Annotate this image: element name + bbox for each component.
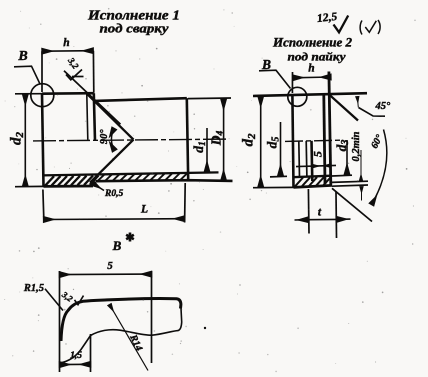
- 60deg arc: [372, 130, 387, 205]
- hatch right band body: [98, 173, 187, 180]
- label 3,2: [66, 55, 82, 71]
- extension middle for 1,5: [90, 334, 92, 372]
- dimension 1,5: [60, 363, 91, 365]
- view label B right: [261, 57, 271, 72]
- svg-text:R14: R14: [127, 332, 144, 353]
- 45deg leader: [359, 108, 386, 117]
- svg-text:5: 5: [107, 260, 113, 272]
- label R14 with arrow: [110, 305, 149, 371]
- svg-text:под пайку: под пайку: [288, 50, 347, 64]
- svg-text:3,2: 3,2: [66, 55, 82, 71]
- dimension d2 right: [253, 186, 294, 188]
- label 3,2 small with tick: [59, 289, 75, 304]
- svg-text:d1: d1: [191, 141, 208, 153]
- wavy break line: [61, 308, 182, 363]
- dimension h right: [291, 72, 293, 93]
- svg-text:В: В: [17, 49, 27, 64]
- socket bore wall v5: [324, 95, 325, 184]
- left edge of part: [42, 94, 44, 187]
- svg-text:0,2min: 0,2min: [351, 131, 362, 161]
- bore ext for d3: [332, 174, 352, 177]
- dimension d3: [346, 140, 348, 175]
- view label B left: [17, 49, 27, 64]
- label R1,5 with leader: [23, 283, 44, 294]
- svg-text:R1,5: R1,5: [23, 283, 44, 294]
- collar face vertical: [94, 93, 95, 141]
- svg-text:d5: d5: [265, 137, 282, 149]
- 90deg angle arc: [111, 128, 114, 150]
- svg-text:45°: 45°: [375, 101, 392, 112]
- roughness (check) symbol: [360, 20, 380, 35]
- collar bottom edge: [44, 185, 94, 188]
- 90deg label: [99, 129, 110, 145]
- extension right for 5: [151, 271, 153, 363]
- cone upper arm 90deg: [88, 94, 134, 139]
- dimension d1: [206, 128, 208, 172]
- detail circle B left: [31, 84, 54, 107]
- svg-text:✱: ✱: [125, 232, 134, 244]
- label R0,5 with leader: [92, 183, 105, 191]
- svg-text:Исполнение 2: Исполнение 2: [272, 36, 352, 50]
- R0,5 fillet step: [90, 183, 96, 186]
- svg-text:d2: d2: [9, 132, 27, 146]
- roughness check symbol: [334, 16, 349, 33]
- title text Исполнение 2: [272, 36, 352, 64]
- socket bottom vertical v4: [310, 141, 313, 181]
- cone lower arm 90deg: [90, 140, 134, 183]
- svg-text:h: h: [63, 37, 69, 49]
- bore line (band top) with d1 extension: [43, 172, 219, 175]
- roughness tick on leader: [66, 70, 82, 80]
- dimension L: [43, 190, 44, 223]
- inner bore vertical v2: [298, 141, 301, 177]
- chamfer diagonal 45: [330, 95, 358, 120]
- collar top edge: [42, 92, 94, 95]
- right edge of part: [187, 98, 188, 180]
- svg-text:R0,5: R0,5: [104, 189, 123, 199]
- left edge end face: [292, 95, 293, 187]
- svg-text:L: L: [140, 204, 148, 216]
- dimension 0,2min: [360, 150, 362, 181]
- dimension 5: [60, 273, 152, 276]
- svg-text:5: 5: [311, 151, 325, 157]
- svg-text:12,5: 12,5: [316, 11, 338, 25]
- svg-text:d3: d3: [334, 140, 351, 152]
- hatch left band collar: [45, 176, 99, 186]
- dimension D4: [188, 97, 231, 100]
- svg-text:В: В: [112, 238, 122, 253]
- 60deg leader diagonal: [332, 188, 372, 221]
- extension 0,2min upper: [332, 181, 369, 182]
- body bottom edge with D4 extension: [96, 180, 233, 181]
- title text Исполнение 1: [87, 9, 180, 36]
- detail title B*: [112, 232, 135, 253]
- svg-text:d2: d2: [241, 133, 259, 147]
- dimension d5: [270, 175, 287, 178]
- thin vertical countersink edge: [87, 94, 88, 140]
- svg-text:90°: 90°: [99, 129, 110, 145]
- dimension t: [307, 189, 310, 234]
- bottom edge right figure: [294, 185, 333, 187]
- right end face v6: [329, 72, 331, 186]
- svg-text:60°: 60°: [369, 133, 385, 151]
- centerline right figure: [285, 140, 340, 141]
- roughness 12,5: [316, 11, 338, 25]
- roughness leader diagonal 3,2: [64, 71, 121, 125]
- hatch right figure band: [295, 177, 331, 187]
- svg-text:под сварку: под сварку: [100, 22, 170, 36]
- svg-text:3,2: 3,2: [59, 289, 75, 304]
- wire centerline left figure: [33, 139, 229, 141]
- detail circle B right: [288, 87, 307, 106]
- dimension h left: [41, 51, 43, 92]
- stray dot: [204, 327, 206, 329]
- socket depth small dimension with rotated 5: [296, 165, 336, 166]
- extension left: [59, 271, 61, 372]
- svg-text:t: t: [318, 207, 322, 219]
- body top edge: [95, 98, 187, 101]
- top edge with extensions: [253, 93, 367, 96]
- extension 0,2min lower: [332, 185, 368, 186]
- svg-text:D4: D4: [209, 131, 226, 147]
- dimension d2 left: [15, 93, 42, 95]
- svg-text:h: h: [308, 63, 314, 75]
- inner bore vertical v3: [305, 141, 308, 177]
- band top right figure: [293, 176, 332, 178]
- thick profile curve: [61, 299, 181, 341]
